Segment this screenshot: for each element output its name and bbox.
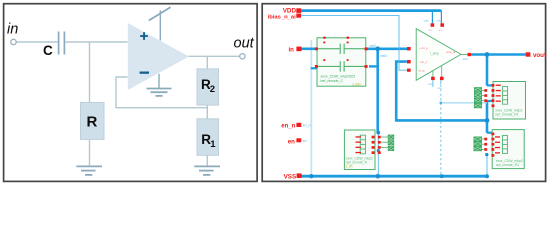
- svg-text:1.06p: 1.06p: [352, 83, 362, 87]
- svg-text:bef_nmode_C: bef_nmode_C: [321, 79, 344, 83]
- svg-text:npf_umode_R1: npf_umode_R1: [496, 163, 519, 167]
- svg-text:1.2K: 1.2K: [346, 165, 354, 169]
- svg-text:ib_ai: ib_ai: [419, 69, 425, 73]
- svg-text:v+: v+: [429, 28, 432, 32]
- svg-text:vss: vss: [428, 82, 433, 86]
- svg-text:v+: v+: [439, 28, 442, 32]
- svg-text:C: C: [43, 43, 53, 58]
- svg-text:net9: net9: [462, 57, 468, 61]
- svg-text:VSS: VSS: [284, 174, 297, 181]
- svg-text:in: in: [288, 47, 294, 53]
- svg-text:npf_umode_R1: npf_umode_R1: [495, 112, 518, 116]
- svg-text:I_amp: I_amp: [430, 51, 439, 55]
- svg-text:en: en: [303, 139, 307, 143]
- svg-text:net2: net2: [381, 54, 388, 58]
- svg-text:1: 1: [210, 139, 216, 150]
- svg-text:2: 2: [210, 84, 215, 95]
- svg-text:vdd: vdd: [437, 19, 442, 23]
- svg-text:vout_ai: vout_ai: [446, 50, 456, 54]
- svg-text:vdd: vdd: [424, 19, 429, 23]
- svg-text:- vin_n: - vin_n: [419, 60, 428, 64]
- svg-text:vss: vss: [438, 86, 443, 90]
- svg-text:en: en: [288, 140, 295, 146]
- svg-text:vout: vout: [533, 52, 546, 59]
- svg-text:in: in: [7, 22, 18, 38]
- svg-text:out: out: [234, 36, 255, 52]
- svg-text:+ vin_p: + vin_p: [419, 46, 429, 50]
- svg-text:ibias_n_ai: ibias_n_ai: [268, 14, 296, 20]
- svg-text:R: R: [87, 114, 98, 131]
- svg-text:en_n: en_n: [281, 123, 295, 129]
- svg-text:net2: net2: [370, 44, 377, 48]
- svg-text:en_n: en_n: [303, 123, 311, 127]
